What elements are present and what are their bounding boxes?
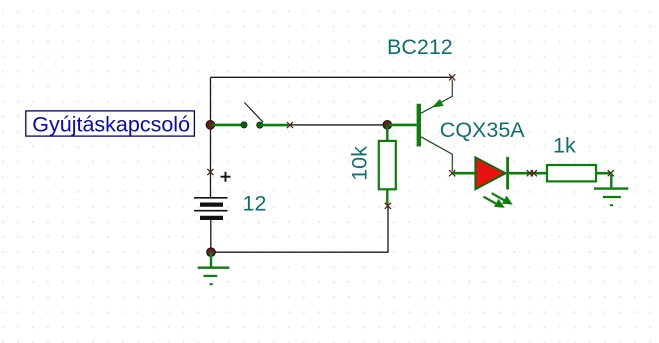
wire node B to transistor base xyxy=(389,124,417,127)
LED D1 emission arrow 2 xyxy=(492,193,506,201)
ground GND2 bar 1 xyxy=(594,187,628,189)
LED D1 emission arrow 1 xyxy=(484,197,498,205)
pin X resistor R2 left xyxy=(531,170,537,176)
node C junction xyxy=(207,248,216,257)
ground GND2 stub xyxy=(610,173,612,188)
wire battery minus to node C xyxy=(210,218,212,252)
resistor R1 bottom stub xyxy=(386,189,388,205)
wire switch left segment xyxy=(212,124,244,127)
wire bottom from node C to resistor R1 bottom pin xyxy=(211,206,388,252)
battery V1 plate short thick xyxy=(200,203,223,207)
pin X switch right xyxy=(287,122,293,128)
wire switch right segment xyxy=(260,124,289,127)
pin X battery top xyxy=(207,169,213,175)
transistor Q1 emitter diagonal xyxy=(421,80,452,114)
node A junction xyxy=(206,121,215,130)
svg-text:CQX35A: CQX35A xyxy=(440,118,526,142)
LED D1 cathode bar xyxy=(506,157,509,190)
svg-text:Gyújtáskapcsoló: Gyújtáskapcsoló xyxy=(32,113,190,137)
battery V1 plate short thick 2 xyxy=(200,216,223,220)
ground GND1 bar 1 xyxy=(198,267,230,269)
battery V1 plate long positive xyxy=(194,197,228,199)
ground GND2 bar 2 xyxy=(603,196,621,198)
wire LED cathode to resistor R2 xyxy=(508,172,547,175)
svg-text:12: 12 xyxy=(243,191,267,215)
pin X resistor R1 bottom xyxy=(385,203,391,209)
switch SW1 blade open xyxy=(244,103,263,123)
pin X transistor emitter top xyxy=(449,74,455,80)
ground GND1 stub xyxy=(210,252,212,268)
wire top from node A to transistor emitter pin xyxy=(211,76,453,78)
LED D1 triangle xyxy=(475,157,505,189)
wire from switch right pin to node B xyxy=(290,124,387,126)
battery V1 plate long positive 2 xyxy=(194,210,228,212)
wire collector to LED anode xyxy=(453,172,475,175)
transistor Q1 emitter arrow PNP xyxy=(432,99,444,108)
resistor R2 body xyxy=(547,165,596,181)
svg-text:10k: 10k xyxy=(348,146,372,181)
transistor Q1 collector diagonal xyxy=(421,137,452,171)
node B junction xyxy=(383,121,392,130)
wire left vertical from top corner through node A down to battery xyxy=(210,77,212,198)
wire node B to resistor R1 top xyxy=(386,126,388,141)
pin X transistor collector bottom xyxy=(449,170,455,176)
battery plus sign xyxy=(221,172,231,182)
wire resistor R2 to ground xyxy=(596,172,611,175)
pin X LED cathode xyxy=(527,170,533,176)
label box Gyujtaskapcsolo xyxy=(26,111,195,136)
svg-text:1k: 1k xyxy=(553,134,576,158)
ground GND1 bar 3 xyxy=(210,283,213,285)
resistor R1 body xyxy=(379,141,396,189)
svg-text:BC212: BC212 xyxy=(387,35,453,59)
ground GND2 bar 3 xyxy=(610,204,613,206)
pin X resistor R2 right xyxy=(608,170,614,176)
transistor Q1 base bar xyxy=(417,104,421,147)
switch SW1 contact dot left xyxy=(241,122,247,128)
switch SW1 contact dot right xyxy=(257,122,263,128)
ground GND1 bar 2 xyxy=(204,275,218,277)
